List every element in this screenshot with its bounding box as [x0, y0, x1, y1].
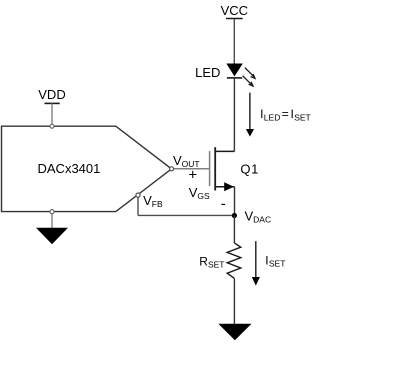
label R_SET [199, 255, 224, 270]
svg-text:VGS: VGS [189, 185, 210, 201]
svg-text:LED: LED [195, 65, 220, 80]
label V_GS [189, 185, 210, 201]
svg-text:+: + [188, 166, 197, 183]
transistor Q1 source leg [215, 186, 234, 188]
svg-text:RSET: RSET [199, 255, 224, 270]
ground bottom triangle [218, 324, 251, 341]
LED D1 cathode bar [227, 77, 242, 79]
label V_FB [143, 193, 163, 209]
wire VDD to DAC [51, 103, 53, 124]
svg-text:Q1: Q1 [240, 162, 259, 177]
transistor Q1 gate bar [209, 151, 211, 186]
label minus sign [221, 196, 226, 213]
svg-text:SET: SET [269, 259, 286, 269]
svg-text:-: - [221, 196, 226, 213]
power VDD bar [45, 102, 60, 104]
label I_LED = I_SET [260, 107, 311, 123]
current arrow I_SET [252, 241, 260, 285]
label DACx3401 [38, 161, 101, 176]
net VCC label [221, 3, 248, 18]
transistor Q1 drain leg [215, 150, 234, 152]
transistor Q1 channel bar [214, 147, 216, 190]
LED emission arrow lower [243, 76, 253, 86]
resistor R_SET zigzag [227, 243, 241, 279]
net VDD label [38, 87, 65, 102]
svg-text:DACx3401: DACx3401 [38, 161, 101, 176]
wire resistor to ground [233, 278, 235, 323]
svg-text:SET: SET [294, 113, 311, 123]
label plus sign [188, 166, 197, 183]
svg-text:VDD: VDD [38, 87, 65, 102]
LED label [195, 65, 220, 80]
wire VFB to node VDAC [138, 214, 234, 216]
svg-text:VFB: VFB [143, 193, 163, 209]
LED emission arrow upper [245, 68, 255, 79]
wire Q1 source to node VDAC [234, 187, 236, 216]
pin VDD circle [50, 124, 54, 128]
DAC block U1 pentagon [2, 126, 172, 211]
node VOUT circle [170, 167, 174, 171]
ground DAC triangle [36, 228, 68, 245]
label V_OUT [173, 153, 200, 169]
label V_DAC [245, 209, 272, 225]
label I_SET [265, 254, 285, 269]
pin DAC ground circle [50, 210, 54, 214]
wire DAC to ground [51, 214, 53, 229]
wire VCC to LED anode [233, 19, 235, 64]
svg-text:=: = [282, 107, 289, 121]
svg-text:LED: LED [264, 113, 281, 123]
transistor Q1 source arrow [224, 182, 234, 191]
transistor Q1 label [240, 162, 259, 177]
svg-text:VDAC: VDAC [245, 209, 272, 225]
wire VFB down [137, 197, 139, 215]
power VCC bar [226, 18, 243, 20]
svg-text:VCC: VCC [221, 3, 248, 18]
node VDAC dot [232, 213, 237, 218]
pin VFB circle [136, 193, 140, 197]
LED D1 anode triangle [226, 64, 243, 77]
current arrow I_LED [246, 93, 254, 137]
wire LED cathode to Q1 drain [233, 78, 235, 151]
wire VOUT apex to gate [173, 168, 209, 170]
wire node VDAC to resistor [233, 216, 235, 244]
